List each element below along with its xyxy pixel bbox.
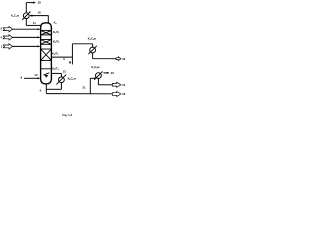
svg-text:18: 18	[38, 1, 42, 5]
svg-text:20: 20	[122, 57, 126, 61]
svg-text:KdCdw: KdCdw	[91, 65, 100, 70]
svg-text:9: 9	[40, 88, 42, 92]
svg-text:KdCdw: KdCdw	[88, 37, 97, 42]
svg-text:16: 16	[38, 11, 42, 15]
svg-text:13: 13	[63, 69, 67, 73]
svg-text:11: 11	[33, 21, 36, 25]
svg-text:K1/T1: K1/T1	[53, 30, 59, 35]
svg-text:4: 4	[0, 35, 2, 39]
svg-text:6: 6	[63, 57, 65, 61]
svg-text:Fig. 1.3: Fig. 1.3	[62, 113, 72, 117]
svg-text:K3/T3: K3/T3	[52, 52, 58, 57]
svg-text:K2/T2: K2/T2	[53, 40, 59, 45]
svg-text:21: 21	[82, 85, 86, 89]
svg-text:KbCbw: KbCbw	[68, 76, 77, 81]
svg-text:K4/T4: K4/T4	[52, 67, 58, 72]
svg-text:26: 26	[122, 92, 126, 96]
svg-text:8: 8	[21, 75, 23, 79]
svg-text:KcCcw: KcCcw	[11, 14, 20, 19]
svg-text:1: 1	[1, 45, 3, 49]
svg-text:10: 10	[34, 73, 38, 77]
svg-text:Ka: Ka	[54, 20, 58, 25]
svg-text:2: 2	[1, 27, 3, 31]
svg-text:24: 24	[122, 83, 126, 87]
svg-text:23: 23	[111, 71, 115, 75]
